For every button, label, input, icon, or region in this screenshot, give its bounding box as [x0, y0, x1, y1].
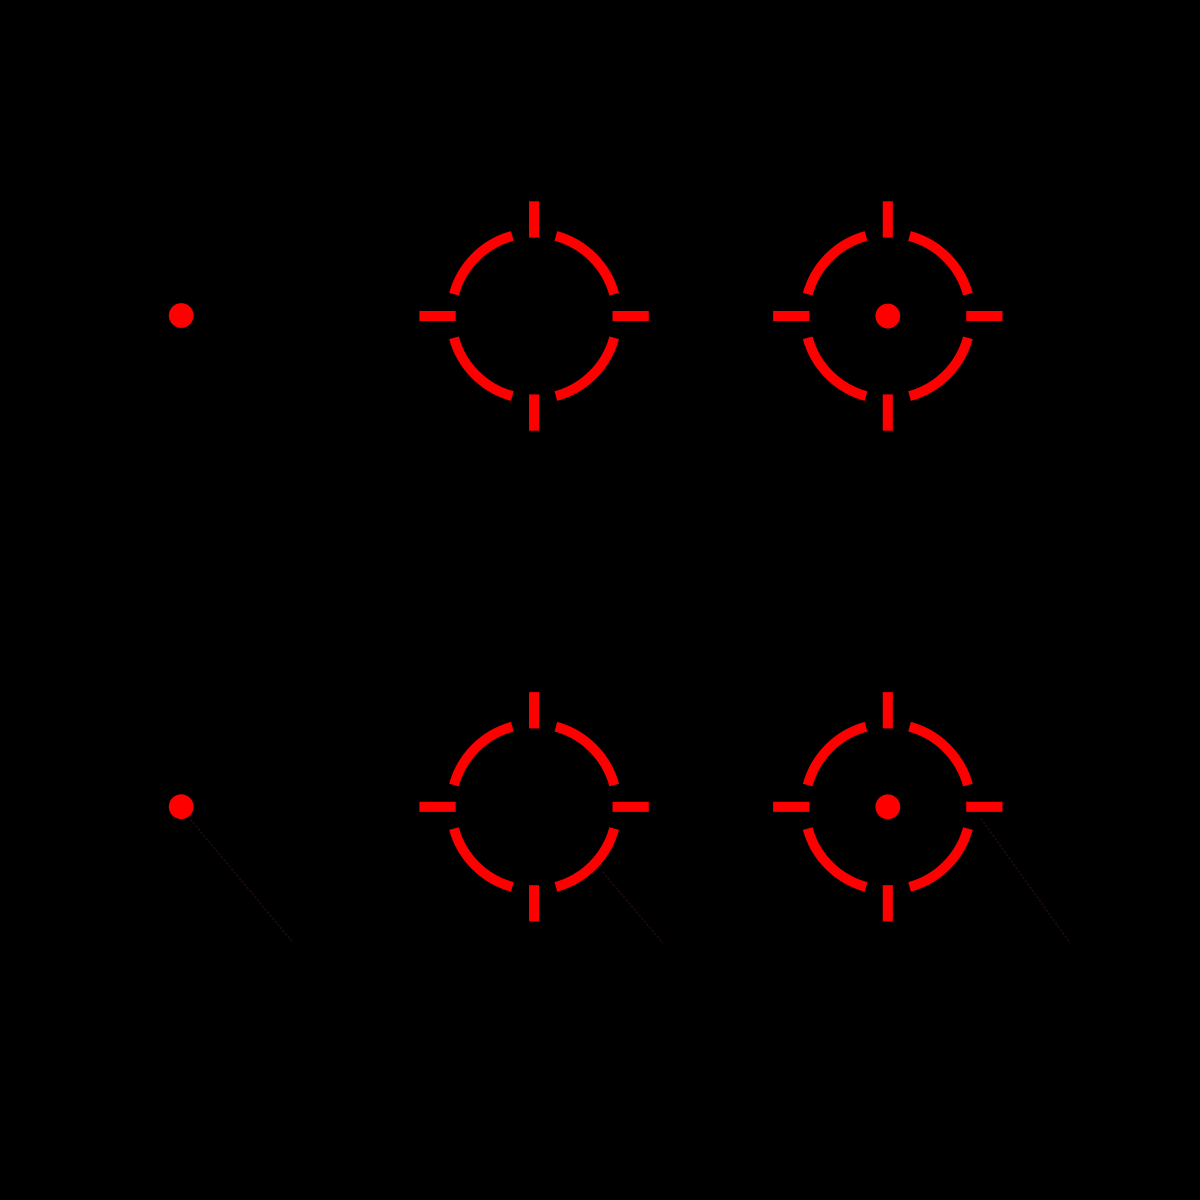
leader line from circle reticle row 2	[603, 872, 664, 943]
dot reticle row 2	[169, 794, 194, 819]
dot reticle row 1	[169, 303, 194, 328]
leader line from circle-dot reticle row 2	[981, 819, 1070, 944]
circle reticle row 2	[419, 692, 648, 921]
leader line from dot reticle row 2	[191, 820, 293, 943]
circle-dot reticle row 1	[773, 201, 1002, 430]
circle-dot reticle row 2	[773, 692, 1002, 921]
circle reticle row 1	[419, 201, 648, 430]
